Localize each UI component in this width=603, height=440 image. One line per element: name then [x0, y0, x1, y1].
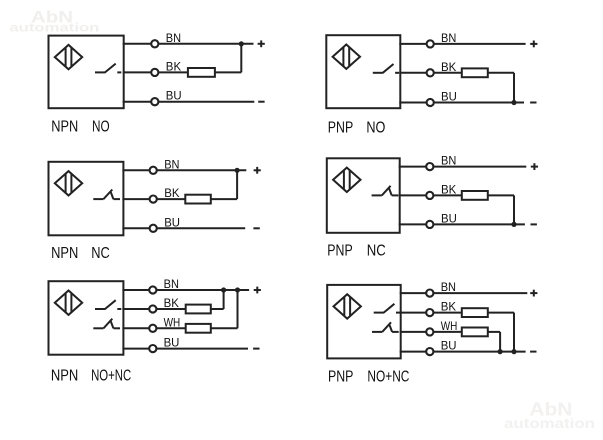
proximity sensor diamond symbol (PNP NC) — [333, 168, 360, 192]
label WH (NPN NO+NC) — [164, 315, 181, 329]
caption NPN NO — [51, 119, 109, 136]
svg-text:BK: BK — [164, 186, 179, 200]
load resistor on BK (NPN NO+NC) — [186, 305, 211, 314]
NO contact switch (PNP NO+NC) — [374, 304, 400, 313]
riser wire WH->BU (PNP NO+NC) — [499, 332, 501, 352]
watermark AbN automation (top-left) — [9, 9, 99, 35]
svg-text:PNP: PNP — [327, 243, 352, 260]
riser wire BK->BN (NPN NO+NC) — [223, 290, 225, 309]
riser wire BK->BN (NPN NC) — [236, 170, 238, 199]
terminal circle BN (PNP NO) — [427, 40, 434, 47]
terminal circle BN (NPN NO+NC) — [149, 286, 156, 293]
wire BK (PNP NO+NC) — [400, 312, 462, 314]
wire BK to riser (PNP NC) — [488, 194, 514, 196]
terminal circle BK (PNP NC) — [426, 192, 433, 199]
svg-text:NO: NO — [366, 120, 385, 137]
sensor box (NPN NO) — [49, 36, 124, 109]
svg-text:NPN: NPN — [51, 119, 78, 136]
sensor box (PNP NO+NC) — [327, 285, 401, 359]
svg-text:automation: automation — [504, 415, 595, 431]
NO contact switch (PNP NO) — [373, 64, 399, 73]
wire BK (PNP NC) — [399, 194, 462, 196]
junction dot on BN (NPN NO) — [239, 41, 244, 46]
wire BK to riser (PNP NO) — [488, 72, 514, 74]
terminal circle BK (NPN NO+NC) — [149, 305, 156, 312]
label BU (PNP NO) — [441, 90, 457, 104]
terminal circle BK (NPN NO) — [151, 69, 158, 76]
svg-text:BU: BU — [164, 336, 180, 350]
svg-text:BU: BU — [441, 90, 457, 104]
plus terminal (NPN NO) — [258, 40, 265, 47]
sensor box (NPN NC) — [49, 162, 124, 236]
label BK (PNP NO) — [441, 60, 456, 74]
label BN (NPN NO+NC) — [164, 277, 179, 291]
label BN (NPN NC) — [164, 157, 179, 171]
junction dot on BU (PNP NO+NC) — [498, 349, 503, 354]
load resistor on WH (NPN NO+NC) — [186, 324, 211, 333]
riser wire WH->BN (NPN NO+NC) — [237, 290, 239, 328]
proximity sensor diamond symbol (PNP NO+NC) — [334, 294, 361, 318]
wire WH to riser (NPN NO+NC) — [211, 327, 238, 329]
minus terminal (NPN NC) — [253, 227, 259, 229]
minus terminal (PNP NO+NC) — [530, 351, 536, 353]
svg-text:PNP: PNP — [328, 120, 353, 137]
wire BU (PNP NO) — [399, 102, 524, 104]
NO contact switch (NPN NO+NC) — [95, 300, 121, 309]
riser wire BK->BU (PNP NO+NC) — [513, 313, 515, 352]
wire BK (NPN NO+NC) — [122, 308, 185, 310]
junction dot on BN (NPN NO+NC) — [235, 287, 240, 292]
wire WH to riser (PNP NO+NC) — [488, 331, 500, 333]
caption NPN NO+NC — [51, 367, 131, 384]
proximity sensor diamond symbol (NPN NC) — [55, 171, 82, 195]
svg-text:BN: BN — [166, 31, 181, 45]
svg-text:BN: BN — [164, 277, 179, 291]
junction dot on BN (NPN NC) — [235, 168, 240, 173]
svg-text:BK: BK — [441, 300, 456, 314]
proximity sensor diamond symbol (NPN NO) — [55, 45, 82, 69]
wire WH (NPN NO+NC) — [122, 327, 185, 329]
svg-text:NO+NC: NO+NC — [367, 368, 409, 385]
terminal circle BN (PNP NC) — [426, 163, 433, 170]
riser wire BK->BU (PNP NO) — [513, 73, 515, 103]
load resistor on BK (PNP NO+NC) — [462, 308, 488, 317]
terminal circle BN (NPN NC) — [150, 167, 157, 174]
caption PNP NO+NC — [328, 368, 409, 385]
svg-text:BU: BU — [441, 339, 457, 353]
wire BN (NPN NO) — [123, 43, 254, 45]
junction dot on BU (PNP NC) — [511, 222, 516, 227]
plus terminal (PNP NO+NC) — [530, 290, 537, 297]
label BN (PNP NC) — [441, 154, 456, 168]
minus terminal (PNP NO) — [530, 102, 536, 104]
label BK (PNP NO+NC) — [441, 300, 456, 314]
terminal circle BN (PNP NO+NC) — [426, 290, 433, 297]
NC contact switch (PNP NO+NC) — [372, 322, 399, 332]
terminal circle BK (PNP NO+NC) — [426, 309, 433, 316]
minus terminal (PNP NC) — [531, 223, 537, 225]
svg-text:NO: NO — [92, 119, 110, 136]
svg-text:BN: BN — [164, 157, 179, 171]
junction dot on BU (PNP NO) — [511, 100, 516, 105]
label BU (NPN NO+NC) — [164, 336, 180, 350]
svg-text:BK: BK — [166, 59, 181, 73]
terminal circle WH (NPN NO+NC) — [149, 325, 156, 332]
svg-text:BK: BK — [441, 60, 456, 74]
proximity sensor diamond symbol (NPN NO+NC) — [55, 291, 82, 315]
riser wire BK->BN (NPN NO) — [240, 44, 242, 73]
load resistor on BK (PNP NC) — [462, 191, 488, 200]
load resistor on WH (PNP NO+NC) — [462, 328, 488, 337]
svg-text:NC: NC — [91, 245, 110, 262]
terminal circle BU (PNP NC) — [426, 221, 433, 228]
load resistor on BK (NPN NC) — [185, 195, 211, 204]
svg-text:BN: BN — [441, 31, 456, 45]
minus terminal (NPN NO+NC) — [253, 348, 259, 350]
svg-text:NPN: NPN — [51, 367, 78, 384]
terminal circle BU (NPN NO+NC) — [149, 345, 156, 352]
wire BU (NPN NO) — [123, 101, 255, 103]
plus terminal (NPN NO+NC) — [254, 287, 261, 294]
svg-text:BK: BK — [441, 182, 456, 196]
terminal circle BU (NPN NC) — [150, 225, 157, 232]
label BU (PNP NO+NC) — [441, 339, 457, 353]
wire BK (PNP NO) — [399, 72, 462, 74]
label BU (NPN NO) — [166, 89, 182, 103]
terminal circle WH (PNP NO+NC) — [426, 328, 433, 335]
NC contact switch (NPN NC) — [93, 190, 120, 200]
svg-text:WH: WH — [441, 319, 458, 333]
proximity sensor diamond symbol (PNP NO) — [333, 45, 360, 69]
plus terminal (PNP NO) — [530, 41, 537, 48]
label BU (NPN NC) — [164, 215, 180, 229]
junction dot on BU (PNP NO+NC) — [511, 349, 516, 354]
wire BU (NPN NO+NC) — [122, 348, 248, 350]
caption NPN NC — [51, 245, 110, 262]
wire BK to riser (PNP NO+NC) — [488, 312, 514, 314]
svg-text:automation: automation — [9, 21, 99, 35]
sensor box (PNP NO) — [326, 35, 400, 108]
wire WH (PNP NO+NC) — [400, 331, 462, 333]
NO contact switch (NPN NO) — [95, 64, 121, 73]
plus terminal (PNP NC) — [531, 163, 538, 170]
terminal circle BU (PNP NO+NC) — [426, 348, 433, 355]
label BN (PNP NO) — [441, 31, 456, 45]
wire BN (PNP NO+NC) — [400, 292, 528, 294]
terminal circle BU (PNP NO) — [427, 99, 434, 106]
svg-text:NPN: NPN — [51, 245, 78, 262]
load resistor on BK (PNP NO) — [462, 68, 488, 77]
svg-text:BN: BN — [441, 280, 456, 294]
caption PNP NO — [328, 120, 386, 137]
terminal circle BK (PNP NO) — [427, 69, 434, 76]
svg-text:NO+NC: NO+NC — [91, 367, 131, 384]
wire BK (NPN NC) — [122, 198, 185, 200]
terminal circle BU (NPN NO) — [151, 98, 158, 105]
label BN (PNP NO+NC) — [441, 280, 456, 294]
svg-text:BN: BN — [441, 154, 456, 168]
NC contact switch (PNP NC) — [372, 186, 399, 196]
riser wire BK->BU (PNP NC) — [513, 195, 515, 224]
wire BU (PNP NC) — [399, 223, 525, 225]
label BK (NPN NC) — [164, 186, 179, 200]
sensor box (PNP NC) — [327, 158, 400, 233]
watermark AbN automation (bottom-right) — [504, 399, 595, 431]
wire BK to riser (NPN NO) — [215, 71, 241, 73]
label WH (PNP NO+NC) — [441, 319, 458, 333]
svg-text:PNP: PNP — [328, 368, 353, 385]
wire BK to riser (NPN NO+NC) — [211, 308, 224, 310]
label BK (NPN NO) — [166, 59, 181, 73]
sensor box (NPN NO+NC) — [49, 281, 124, 355]
wire BN (NPN NO+NC) — [122, 289, 249, 291]
wire BU (NPN NC) — [122, 227, 245, 229]
svg-text:NC: NC — [367, 243, 386, 260]
load resistor on BK (NPN NO) — [188, 68, 215, 77]
svg-text:BU: BU — [441, 211, 457, 225]
label BN (NPN NO) — [166, 31, 181, 45]
label BK (PNP NC) — [441, 182, 456, 196]
svg-text:BU: BU — [164, 215, 180, 229]
wire BK to riser (NPN NC) — [211, 198, 237, 200]
svg-text:BK: BK — [164, 296, 179, 310]
plus terminal (NPN NC) — [254, 167, 261, 174]
wire BN (PNP NC) — [399, 166, 527, 168]
label BU (PNP NC) — [441, 211, 457, 225]
terminal circle BK (NPN NC) — [150, 196, 157, 203]
wire BN (NPN NC) — [122, 169, 246, 171]
label BK (NPN NO+NC) — [164, 296, 179, 310]
wire BK (NPN NO) — [123, 71, 188, 73]
minus terminal (NPN NO) — [258, 101, 264, 103]
svg-text:WH: WH — [164, 315, 181, 329]
caption PNP NC — [327, 243, 385, 260]
NC contact switch (NPN NO+NC) — [93, 319, 120, 329]
wire BN (PNP NO) — [399, 43, 525, 45]
terminal circle BN (NPN NO) — [151, 40, 158, 47]
svg-text:BU: BU — [166, 89, 182, 103]
wire BU (PNP NO+NC) — [400, 351, 526, 353]
junction dot on BN (NPN NO+NC) — [221, 287, 226, 292]
